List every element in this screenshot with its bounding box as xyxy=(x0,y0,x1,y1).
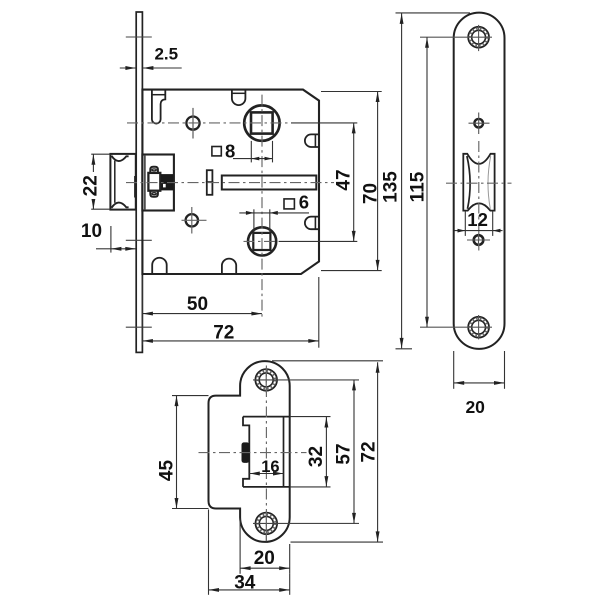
svg-text:12: 12 xyxy=(467,209,488,230)
dimension 32 xyxy=(290,416,331,418)
tick on bar at mid hole level xyxy=(126,239,152,241)
centerline top spindle horizontal xyxy=(127,122,291,124)
D cutout upper on right edge xyxy=(305,134,319,147)
spindle hub bottom (circle with square hole) xyxy=(248,227,276,255)
screw hole bottom xyxy=(186,214,198,226)
dimension 135 xyxy=(396,12,471,14)
extension line 47 top xyxy=(291,122,357,124)
small hole below latch opening xyxy=(474,235,484,245)
svg-text:32: 32 xyxy=(306,446,327,467)
svg-text:70: 70 xyxy=(360,183,381,204)
housing ear bottom xyxy=(150,191,158,197)
middle small hole xyxy=(474,119,483,128)
follower bar xyxy=(222,176,316,190)
centerline vertical xyxy=(265,366,267,542)
centerline vertical plate xyxy=(478,141,480,251)
latch case box xyxy=(142,155,174,211)
dimension 8 lines xyxy=(250,141,252,163)
tick on bar at top screw level xyxy=(126,36,152,38)
svg-text:57: 57 xyxy=(334,443,355,464)
stopper plate xyxy=(207,170,213,195)
svg-text:6: 6 xyxy=(299,192,309,213)
centerline latch axis xyxy=(126,182,334,184)
dimension 70 xyxy=(321,91,382,93)
dimension 20 xyxy=(239,519,241,574)
dimension 115 xyxy=(409,170,425,204)
svg-text:34: 34 xyxy=(234,572,256,593)
dimension 12 xyxy=(464,211,466,236)
dimension 72 xyxy=(272,360,383,362)
keyhole notch at body top xyxy=(152,90,165,124)
svg-text:50: 50 xyxy=(187,294,208,315)
latch opening with roller xyxy=(463,154,494,211)
latch catch tab (solid) xyxy=(242,442,250,463)
latch bolt head xyxy=(110,154,135,210)
centerline spindle vertical xyxy=(261,95,263,318)
svg-text:135: 135 xyxy=(381,171,402,203)
tick on bar at bottom screw level xyxy=(126,326,152,328)
svg-text:20: 20 xyxy=(465,397,485,417)
spindle hub top (circle with square hole) xyxy=(244,105,279,140)
arch notch at body top xyxy=(232,90,246,105)
dimension 50 xyxy=(141,276,143,345)
svg-text:2.5: 2.5 xyxy=(154,45,178,64)
latch spring housing xyxy=(148,173,160,191)
svg-text:72: 72 xyxy=(359,441,380,462)
dimension 45 xyxy=(172,395,209,397)
dimension 47 xyxy=(353,123,355,241)
faceplate plate outline xyxy=(454,13,505,349)
bottom arch notch left xyxy=(152,258,167,273)
dimension 2.5 xyxy=(120,67,136,69)
dimension 10 xyxy=(110,226,112,253)
dimension 22 xyxy=(91,153,110,155)
dimension 16 xyxy=(249,473,283,475)
faceplate bar (edge view) xyxy=(136,12,142,352)
svg-text:115: 115 xyxy=(407,171,428,202)
dimension 57 xyxy=(353,380,355,524)
extension line 47 bottom xyxy=(279,240,357,242)
top screw hole xyxy=(255,369,277,391)
dimension 20 xyxy=(453,351,455,389)
dimension 72 xyxy=(318,277,320,348)
housing ear top xyxy=(150,167,158,173)
D cutout lower on right edge xyxy=(305,217,319,230)
svg-text:22: 22 xyxy=(81,175,102,196)
screw hole top xyxy=(186,117,199,130)
svg-text:47: 47 xyxy=(334,169,355,190)
bottom arch notch right xyxy=(222,259,236,274)
spring block (solid) xyxy=(161,174,174,190)
dimension 34 xyxy=(208,510,210,595)
lock body outline xyxy=(142,90,319,274)
svg-text:72: 72 xyxy=(213,323,234,344)
svg-text:16: 16 xyxy=(261,458,279,476)
top screw hole xyxy=(468,27,489,48)
latch cutout box xyxy=(243,416,290,418)
dimension 8 (square symbol + label) xyxy=(212,147,221,156)
centerline bottom spindle horizontal xyxy=(244,240,280,242)
svg-text:10: 10 xyxy=(81,221,102,242)
latch cutout stepped left edge xyxy=(243,417,249,487)
bottom screw hole xyxy=(468,317,489,338)
bottom screw hole xyxy=(255,513,277,535)
centerline horizontal xyxy=(199,452,307,454)
dimension 6 lines xyxy=(253,209,255,232)
centerline latch axis xyxy=(446,182,512,184)
dimension 6 (square symbol + label) xyxy=(284,199,294,209)
strike plate outline xyxy=(209,361,290,542)
svg-text:45: 45 xyxy=(156,460,177,482)
svg-text:20: 20 xyxy=(254,548,275,569)
